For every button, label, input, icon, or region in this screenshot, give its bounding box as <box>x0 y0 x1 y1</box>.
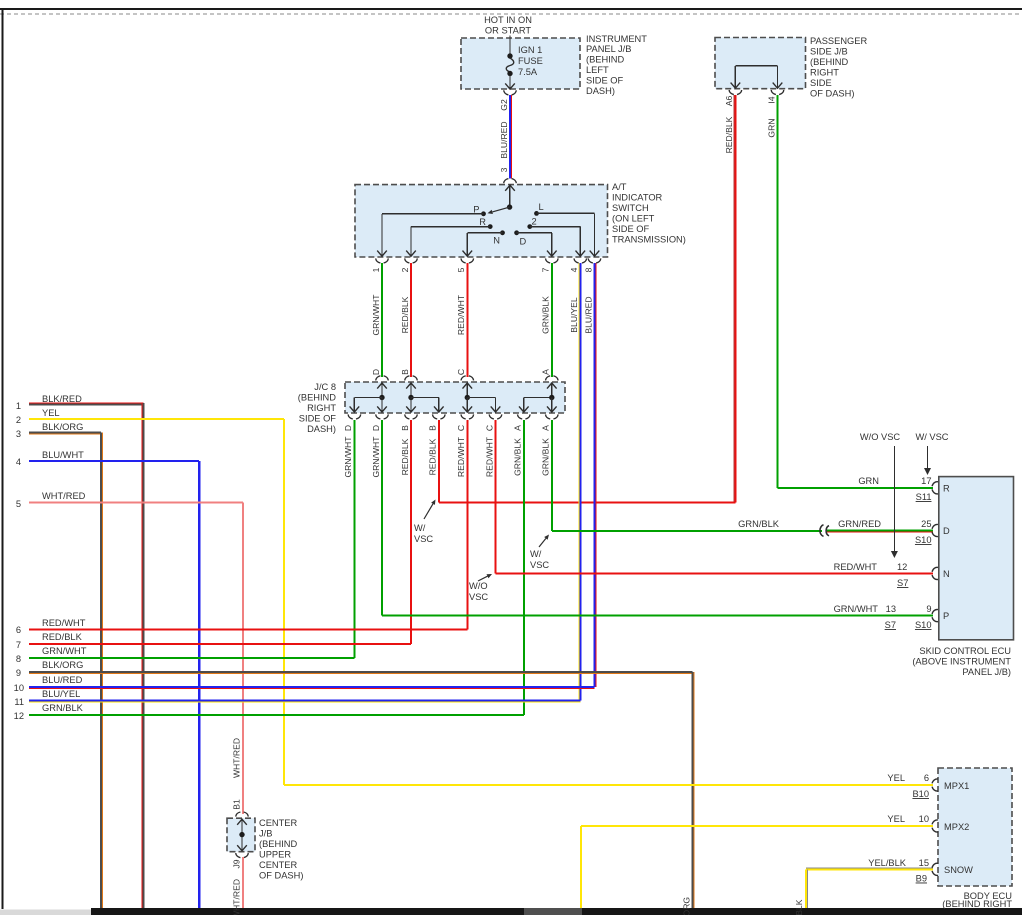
wire RED/BLK horizontal W/ VSC row <box>439 502 736 504</box>
svg-text:W/ VSC: W/ VSC <box>915 432 948 442</box>
svg-text:W/: W/ <box>414 523 426 533</box>
svg-text:MPX1: MPX1 <box>944 781 969 791</box>
svg-text:S11: S11 <box>916 492 932 502</box>
fuse IGN 1 7.5A <box>507 53 512 58</box>
wire WHT/RED below center J/B <box>242 857 244 908</box>
wire BLU/YEL pin 4 down <box>579 263 581 701</box>
svg-text:R: R <box>943 483 950 493</box>
svg-text:A: A <box>541 425 551 431</box>
svg-text:BLU/RED: BLU/RED <box>583 296 593 333</box>
instrument panel J/B box <box>461 38 580 89</box>
wire RED/BLK B1 to terminal 7 <box>410 420 412 644</box>
svg-text:GRN: GRN <box>766 118 776 137</box>
A/T indicator switch box <box>355 185 608 257</box>
svg-text:(BEHIND: (BEHIND <box>298 393 337 403</box>
svg-text:C: C <box>456 369 466 375</box>
svg-text:RED/BLK: RED/BLK <box>724 116 734 153</box>
svg-text:GRN/BLK: GRN/BLK <box>738 519 780 529</box>
svg-text:RED/BLK: RED/BLK <box>400 296 410 333</box>
svg-text:BLK/ORG: BLK/ORG <box>42 422 83 432</box>
svg-text:A/T: A/T <box>612 182 627 192</box>
wire BLU/WHT vertical <box>198 461 200 908</box>
svg-text:INDICATOR: INDICATOR <box>612 193 663 203</box>
svg-text:DASH): DASH) <box>307 424 336 434</box>
wire GRN/WHT D2 to skid ECU P <box>381 420 383 616</box>
wire GRN/WHT to skid ECU pin P 13 9 <box>382 615 933 617</box>
svg-text:GRN/WHT: GRN/WHT <box>371 436 381 478</box>
svg-text:10: 10 <box>14 683 24 693</box>
svg-text:11: 11 <box>14 697 24 707</box>
wire N to pin 5 <box>467 232 502 234</box>
svg-text:9: 9 <box>926 604 931 614</box>
wire 2 to pin 4 <box>530 226 581 228</box>
svg-text:BLU/RED: BLU/RED <box>499 121 509 158</box>
wire GRN/BLK A1 to terminal 12 <box>523 420 525 715</box>
svg-text:17: 17 <box>921 476 931 486</box>
bottom gray strip <box>0 910 91 915</box>
svg-text:3: 3 <box>16 429 21 439</box>
svg-text:S10: S10 <box>915 535 932 545</box>
wire RED/WHT pin 5 to J/C8 C <box>466 263 468 377</box>
contact P <box>481 211 486 216</box>
passenger side J/B box <box>715 38 806 89</box>
wire BLK/RED vertical <box>142 403 144 908</box>
svg-text:N: N <box>493 236 500 246</box>
svg-text:BLU/RED: BLU/RED <box>42 675 83 685</box>
svg-text:5: 5 <box>456 267 466 272</box>
svg-text:N: N <box>943 569 950 579</box>
wire BLU/RED pin 8 down <box>594 263 596 687</box>
svg-text:S7: S7 <box>897 578 908 588</box>
svg-text:J/B: J/B <box>259 829 272 839</box>
svg-text:SWITCH: SWITCH <box>612 203 649 213</box>
svg-text:TRANSMISSION): TRANSMISSION) <box>612 235 686 245</box>
svg-text:25: 25 <box>921 519 931 529</box>
svg-text:YEL/BLK: YEL/BLK <box>794 899 804 915</box>
svg-text:B10: B10 <box>912 789 929 799</box>
svg-text:6: 6 <box>16 625 21 635</box>
svg-text:OR START: OR START <box>485 26 531 36</box>
left border line <box>1 9 3 909</box>
connector pin A6 <box>729 90 734 95</box>
wire YEL to body ECU MPX1 6 <box>284 784 933 786</box>
svg-text:BLK/ORG: BLK/ORG <box>681 897 691 915</box>
wire GRN from I4 down <box>777 95 779 488</box>
svg-text:4: 4 <box>569 267 579 272</box>
svg-text:D: D <box>371 425 381 431</box>
connector G2 <box>504 90 509 95</box>
wire GRN/BLK pin 7 to J/C8 A <box>551 263 553 377</box>
svg-text:RED/WHT: RED/WHT <box>834 562 878 572</box>
wire YEL/BLK to body ECU SNOW 15 <box>806 868 933 870</box>
svg-text:BLU/YEL: BLU/YEL <box>42 689 80 699</box>
svg-text:B9: B9 <box>916 874 927 884</box>
svg-text:SIDE OF: SIDE OF <box>612 224 650 234</box>
svg-text:12: 12 <box>14 711 24 721</box>
svg-text:GRN/BLK: GRN/BLK <box>513 438 523 476</box>
svg-text:RED/BLK: RED/BLK <box>400 438 410 475</box>
svg-text:RED/BLK: RED/BLK <box>42 632 83 642</box>
bottom black bar <box>91 908 1022 915</box>
svg-text:1: 1 <box>371 267 381 272</box>
wire YEL vertical from bottom <box>580 826 582 908</box>
svg-text:YEL/BLK: YEL/BLK <box>868 858 907 868</box>
J/C8 internal bus C <box>466 383 468 398</box>
svg-text:RED/WHT: RED/WHT <box>456 436 466 477</box>
svg-text:SIDE J/B: SIDE J/B <box>810 47 848 57</box>
connector pin 3 of A/T switch <box>504 179 509 184</box>
wire RED/WHT C2 to skid ECU N <box>495 420 497 573</box>
svg-text:RED/WHT: RED/WHT <box>456 294 466 335</box>
contact L <box>534 211 539 216</box>
svg-text:2: 2 <box>532 216 537 226</box>
wire GRN/RED to pin D <box>827 530 933 532</box>
svg-text:SKID CONTROL ECU: SKID CONTROL ECU <box>919 646 1011 656</box>
svg-text:(ON LEFT: (ON LEFT <box>612 214 655 224</box>
svg-text:BLU/YEL: BLU/YEL <box>569 297 579 333</box>
svg-text:VSC: VSC <box>530 560 549 570</box>
A/T switch lever <box>492 207 509 212</box>
svg-text:1: 1 <box>16 401 21 411</box>
svg-text:R: R <box>479 217 486 227</box>
svg-text:3: 3 <box>499 167 509 172</box>
svg-text:YEL: YEL <box>887 773 905 783</box>
svg-text:YEL: YEL <box>42 408 60 418</box>
J/C8 internal bus A <box>524 397 552 399</box>
svg-text:B1: B1 <box>232 799 242 810</box>
wire GRN/WHT pin 1 to J/C8 D <box>381 263 383 377</box>
svg-text:S10: S10 <box>915 620 932 630</box>
svg-text:9: 9 <box>16 668 21 678</box>
svg-text:(BEHIND: (BEHIND <box>259 839 298 849</box>
svg-text:G2: G2 <box>499 99 509 111</box>
svg-text:4: 4 <box>16 457 21 467</box>
svg-text:5: 5 <box>16 499 21 509</box>
svg-text:L: L <box>539 202 544 212</box>
svg-text:SIDE OF: SIDE OF <box>299 414 337 424</box>
svg-text:7: 7 <box>541 267 551 272</box>
svg-text:A6: A6 <box>724 96 734 107</box>
svg-text:OF DASH): OF DASH) <box>810 89 854 99</box>
svg-text:BLU/WHT: BLU/WHT <box>42 450 84 460</box>
A/T switch pivot <box>509 186 511 206</box>
svg-text:2: 2 <box>16 415 21 425</box>
svg-text:MPX2: MPX2 <box>944 822 969 832</box>
connectors out of J/C8 bottom <box>348 414 353 419</box>
bottom bar gray segment <box>524 908 582 915</box>
svg-text:D: D <box>520 237 527 247</box>
wire D to pin 7 <box>517 232 552 234</box>
arrow out of instrument J/B pin G2 <box>509 79 511 88</box>
svg-text:WHT/RED: WHT/RED <box>232 738 242 778</box>
svg-text:GRN/WHT: GRN/WHT <box>371 294 381 336</box>
wire RED/BLK pin 2 to J/C8 B <box>410 263 412 377</box>
wire GRN/BLK then GRN/RED to skid ECU pin D 25 <box>552 530 822 532</box>
svg-text:RIGHT: RIGHT <box>307 403 336 413</box>
svg-text:P: P <box>943 611 949 621</box>
svg-text:(BEHIND: (BEHIND <box>810 57 849 67</box>
contact R <box>488 224 493 229</box>
wire RED/WHT to skid ECU pin N 12 <box>496 572 934 574</box>
svg-text:GRN/BLK: GRN/BLK <box>541 296 551 334</box>
svg-text:PANEL J/B): PANEL J/B) <box>962 667 1011 677</box>
wire P to pin 1 <box>382 213 484 215</box>
J/C8 internal bus B <box>410 383 412 398</box>
svg-text:S7: S7 <box>885 620 896 630</box>
connector J9 center J/B <box>236 853 241 858</box>
svg-text:P: P <box>473 205 479 215</box>
splice connector <box>820 525 824 537</box>
svg-text:A: A <box>541 369 551 375</box>
svg-text:SIDE OF: SIDE OF <box>586 76 624 86</box>
svg-text:W/O: W/O <box>469 581 488 591</box>
svg-text:GRN/BLK: GRN/BLK <box>541 438 551 476</box>
junction connector J/C 8 box <box>345 382 565 413</box>
svg-text:(BEHIND: (BEHIND <box>586 55 625 65</box>
connectors into J/C8 top D B C A <box>376 376 381 381</box>
svg-text:RED/WHT: RED/WHT <box>42 618 86 628</box>
svg-text:12: 12 <box>897 562 907 572</box>
svg-text:B: B <box>400 425 410 431</box>
svg-text:UPPER: UPPER <box>259 850 291 860</box>
svg-text:8: 8 <box>583 267 593 272</box>
wire RED/WHT C1 to terminal 6 <box>466 420 468 630</box>
svg-text:INSTRUMENT: INSTRUMENT <box>586 34 647 44</box>
svg-text:PANEL J/B: PANEL J/B <box>586 44 631 54</box>
svg-text:GRN/WHT: GRN/WHT <box>42 646 87 656</box>
svg-text:WHT/RED: WHT/RED <box>232 879 242 915</box>
top border line <box>0 8 1022 10</box>
wire GRN to skid ECU pin R 17 <box>778 487 934 489</box>
svg-text:6: 6 <box>924 773 929 783</box>
svg-text:GRN/WHT: GRN/WHT <box>343 436 353 478</box>
svg-text:BLK/ORG: BLK/ORG <box>42 660 83 670</box>
svg-text:SNOW: SNOW <box>944 865 973 875</box>
svg-text:C: C <box>456 425 466 431</box>
svg-text:CENTER: CENTER <box>259 860 298 870</box>
svg-text:W/: W/ <box>530 549 542 559</box>
svg-text:YEL: YEL <box>887 814 905 824</box>
center J/B internal <box>241 819 243 850</box>
svg-text:(ABOVE INSTRUMENT: (ABOVE INSTRUMENT <box>912 657 1011 667</box>
svg-text:FUSE: FUSE <box>518 56 543 66</box>
svg-text:LEFT: LEFT <box>586 65 609 75</box>
svg-text:7.5A: 7.5A <box>518 67 538 77</box>
wire YEL to body ECU MPX2 10 <box>581 825 933 827</box>
svg-text:OF DASH): OF DASH) <box>259 871 303 881</box>
svg-text:W/O VSC: W/O VSC <box>860 432 901 442</box>
connector pin I4 <box>771 90 776 95</box>
svg-text:HOT IN ON: HOT IN ON <box>484 15 532 25</box>
svg-text:C: C <box>484 425 494 431</box>
svg-text:2: 2 <box>400 267 410 272</box>
svg-text:B: B <box>428 425 438 431</box>
svg-text:GRN/RED: GRN/RED <box>838 519 881 529</box>
svg-text:15: 15 <box>919 858 929 868</box>
wire R to pin 2 <box>411 226 490 228</box>
wire BLK/ORG right vertical <box>692 672 694 908</box>
contact D <box>514 230 519 235</box>
wire WHT/RED vertical to center J/B <box>242 503 244 814</box>
svg-text:J/C 8: J/C 8 <box>314 382 336 392</box>
connector B1 center J/B <box>236 812 241 817</box>
svg-text:SIDE: SIDE <box>810 78 832 88</box>
svg-text:D: D <box>343 425 353 431</box>
svg-text:PASSENGER: PASSENGER <box>810 36 867 46</box>
wire GRN/BLK A2 W/ VSC <box>551 420 553 531</box>
svg-text:I4: I4 <box>766 96 776 103</box>
wire BLK/ORG vertical <box>100 433 102 909</box>
svg-text:GRN/BLK: GRN/BLK <box>42 703 84 713</box>
contact 2 <box>527 224 532 229</box>
svg-text:(BEHIND RIGHT: (BEHIND RIGHT <box>942 899 1012 909</box>
top inner dashed line <box>0 13 1022 15</box>
svg-text:WHT/RED: WHT/RED <box>42 491 86 501</box>
wire YEL/BLK vertical from bottom <box>805 869 807 908</box>
passenger J/B internal jumper <box>735 65 777 67</box>
svg-text:D: D <box>943 526 950 536</box>
svg-text:8: 8 <box>16 654 21 664</box>
svg-text:VSC: VSC <box>469 592 488 602</box>
svg-text:IGN 1: IGN 1 <box>518 45 542 55</box>
svg-text:VSC: VSC <box>414 534 433 544</box>
svg-text:13: 13 <box>886 604 896 614</box>
wire from HOT feed into J/B <box>509 36 511 55</box>
svg-text:J9: J9 <box>232 859 242 868</box>
svg-text:CENTER: CENTER <box>259 818 298 828</box>
svg-text:B: B <box>400 369 410 375</box>
wire RED/BLK B2 W/ VSC <box>438 420 440 503</box>
wire RED/BLK from A6 to VSC junction row <box>734 95 736 503</box>
contact N <box>500 230 505 235</box>
svg-text:DASH): DASH) <box>586 86 615 96</box>
svg-text:GRN: GRN <box>858 476 879 486</box>
svg-text:RED/BLK: RED/BLK <box>428 438 438 475</box>
center J/B box <box>227 818 255 852</box>
wire L to pin 8 <box>537 212 595 214</box>
svg-text:RED/WHT: RED/WHT <box>484 436 494 477</box>
svg-text:RIGHT: RIGHT <box>810 68 839 78</box>
J/C8 internal bus D <box>381 383 383 398</box>
svg-text:7: 7 <box>16 640 21 650</box>
svg-text:10: 10 <box>919 814 929 824</box>
svg-text:A: A <box>513 425 523 431</box>
body ECU box <box>938 768 1012 886</box>
svg-text:D: D <box>371 369 381 375</box>
connectors pins 1 2 5 7 4 8 <box>376 258 381 263</box>
wire BLU/RED pin G2 to pin 3 <box>509 95 511 179</box>
svg-text:GRN/WHT: GRN/WHT <box>834 604 879 614</box>
wire YEL vertical <box>283 419 285 785</box>
wire GRN/WHT D1 to terminal 8 <box>353 420 355 658</box>
skid control ECU box <box>939 477 1014 640</box>
